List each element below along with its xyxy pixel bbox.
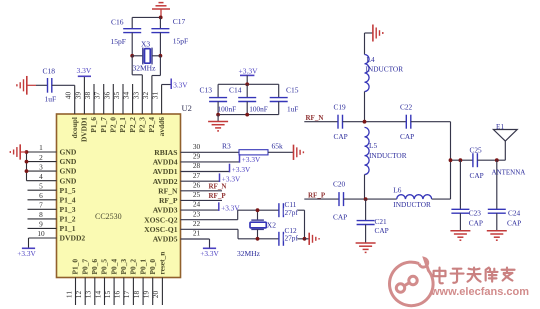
svg-text:14: 14	[93, 291, 102, 299]
svg-text:P1_6: P1_6	[89, 117, 98, 133]
svg-text:C21: C21	[375, 217, 388, 226]
svg-text:RF_N: RF_N	[306, 114, 324, 122]
svg-text:CAP: CAP	[400, 132, 414, 141]
svg-text:INDUCTOR: INDUCTOR	[393, 200, 431, 209]
svg-text:P1_4: P1_4	[60, 195, 76, 204]
svg-text:2: 2	[39, 153, 43, 162]
svg-text:+3.3V: +3.3V	[17, 249, 36, 258]
svg-text:AVDD3: AVDD3	[153, 206, 178, 215]
svg-text:P0_6: P0_6	[90, 259, 99, 275]
svg-text:3.3V: 3.3V	[77, 66, 92, 75]
svg-text:P0_0: P0_0	[148, 259, 157, 275]
svg-text:P1_7: P1_7	[99, 117, 108, 133]
svg-text:RF_N: RF_N	[158, 186, 178, 195]
svg-text:7: 7	[39, 201, 43, 210]
svg-text:C20: C20	[333, 180, 346, 189]
svg-text:GND: GND	[60, 148, 77, 157]
svg-text:INDUCTOR: INDUCTOR	[369, 151, 407, 160]
svg-text:15pF: 15pF	[173, 37, 188, 46]
svg-text:dcoupl: dcoupl	[70, 117, 79, 138]
svg-text:www.elecfans.com: www.elecfans.com	[430, 286, 529, 298]
svg-text:C25: C25	[470, 146, 483, 155]
svg-text:RF_P: RF_P	[159, 196, 178, 205]
svg-text:100nF: 100nF	[249, 105, 268, 114]
svg-text:avdd6: avdd6	[157, 117, 166, 137]
svg-text:32MHz: 32MHz	[237, 249, 261, 258]
svg-text:65k: 65k	[272, 142, 284, 151]
svg-text:P0_5: P0_5	[100, 259, 109, 275]
svg-text:RBIAS: RBIAS	[154, 148, 177, 157]
svg-text:DVDD1: DVDD1	[80, 117, 89, 142]
svg-text:20: 20	[151, 291, 160, 299]
svg-text:27pf: 27pf	[285, 234, 299, 243]
svg-text:P2_2: P2_2	[128, 117, 137, 133]
svg-text:24: 24	[193, 200, 201, 209]
svg-text:XOSC-Q1: XOSC-Q1	[144, 225, 178, 234]
svg-text:P1_2: P1_2	[60, 215, 76, 224]
svg-text:18: 18	[132, 291, 141, 299]
svg-text:P1_3: P1_3	[60, 205, 76, 214]
svg-text:C15: C15	[286, 86, 299, 95]
svg-text:11: 11	[64, 291, 73, 298]
svg-text:8: 8	[39, 210, 43, 219]
svg-text:17: 17	[122, 291, 131, 299]
svg-text:+3.3V: +3.3V	[232, 165, 251, 174]
svg-text:CC2530: CC2530	[95, 212, 122, 221]
svg-text:P0_2: P0_2	[129, 259, 138, 275]
svg-text:RF_P: RF_P	[209, 192, 227, 200]
svg-text:GND: GND	[60, 167, 77, 176]
svg-text:P2_0: P2_0	[109, 117, 118, 133]
svg-text:XOSC-Q2: XOSC-Q2	[144, 215, 178, 224]
svg-text:R3: R3	[222, 142, 231, 151]
svg-text:27: 27	[193, 171, 201, 180]
svg-text:RF_N: RF_N	[209, 183, 227, 191]
svg-text:C14: C14	[229, 86, 242, 95]
svg-text:6: 6	[39, 191, 43, 200]
svg-text:C16: C16	[111, 18, 124, 27]
svg-text:100nF: 100nF	[218, 105, 237, 114]
svg-text:19: 19	[142, 291, 151, 299]
svg-text:L6: L6	[393, 186, 401, 195]
svg-text:P2_3: P2_3	[138, 117, 147, 133]
svg-text:CAP: CAP	[470, 171, 484, 180]
svg-text:X3: X3	[141, 40, 150, 49]
svg-text:GND: GND	[60, 176, 77, 185]
svg-text:C22: C22	[400, 102, 413, 111]
svg-text:1uF: 1uF	[45, 95, 57, 104]
svg-text:4: 4	[39, 172, 43, 181]
svg-text:P0_7: P0_7	[80, 259, 89, 275]
svg-text:CAP: CAP	[469, 218, 483, 227]
svg-text:15: 15	[103, 291, 112, 299]
svg-text:13: 13	[84, 291, 93, 299]
svg-text:+3.3V: +3.3V	[238, 66, 258, 75]
svg-text:10: 10	[37, 229, 45, 238]
svg-text:12: 12	[74, 291, 83, 299]
svg-text:32MHz: 32MHz	[133, 64, 157, 73]
svg-text:C19: C19	[334, 102, 347, 111]
svg-text:ANTENNA: ANTENNA	[492, 169, 526, 177]
svg-text:DVDD2: DVDD2	[60, 234, 86, 243]
svg-text:AVDD5: AVDD5	[153, 235, 178, 244]
svg-text:3: 3	[39, 162, 43, 171]
svg-text:U2: U2	[182, 103, 192, 113]
svg-text:+3.3V: +3.3V	[242, 155, 261, 164]
svg-text:30: 30	[193, 142, 201, 151]
svg-text:P0_4: P0_4	[109, 259, 118, 275]
svg-text:P1_5: P1_5	[60, 186, 76, 195]
svg-text:P1_0: P1_0	[71, 259, 80, 275]
svg-text:C18: C18	[43, 66, 56, 75]
svg-text:16: 16	[113, 291, 122, 299]
svg-text:CAP: CAP	[334, 132, 348, 141]
svg-text:+3.3V: +3.3V	[200, 249, 219, 258]
svg-text:1: 1	[39, 143, 43, 152]
svg-text:CAP: CAP	[375, 226, 389, 235]
svg-text:40: 40	[64, 92, 73, 100]
svg-text:9: 9	[39, 220, 43, 229]
svg-text:RF_P: RF_P	[308, 191, 326, 199]
svg-text:C13: C13	[200, 86, 213, 95]
svg-text:1uF: 1uF	[287, 105, 298, 114]
svg-text:AVDD1: AVDD1	[153, 167, 178, 176]
svg-text:P0_3: P0_3	[119, 259, 128, 275]
svg-text:3.3V: 3.3V	[173, 80, 188, 89]
svg-text:C24: C24	[508, 209, 521, 218]
svg-text:5: 5	[39, 181, 43, 190]
svg-text:P0_1: P0_1	[138, 259, 147, 275]
svg-text:reset_n: reset_n	[158, 252, 167, 275]
svg-text:P2_1: P2_1	[118, 117, 127, 133]
svg-text:27pf: 27pf	[285, 208, 299, 217]
svg-text:AVDD4: AVDD4	[153, 158, 178, 167]
svg-text:P2_4: P2_4	[147, 117, 156, 133]
svg-text:P1_1: P1_1	[60, 224, 76, 233]
svg-text:AVDD2: AVDD2	[153, 177, 178, 186]
svg-text:L5: L5	[369, 141, 377, 150]
svg-text:CAP: CAP	[333, 212, 347, 221]
svg-text:CAP: CAP	[507, 218, 521, 227]
svg-text:C17: C17	[173, 17, 186, 26]
svg-text:C23: C23	[469, 209, 482, 218]
svg-text:21: 21	[193, 229, 201, 238]
svg-text:GND: GND	[60, 157, 77, 166]
svg-text:L4: L4	[367, 55, 375, 64]
svg-text:15pF: 15pF	[111, 37, 126, 46]
svg-text:INDUCTOR: INDUCTOR	[366, 65, 404, 74]
svg-text:X2: X2	[267, 220, 276, 229]
